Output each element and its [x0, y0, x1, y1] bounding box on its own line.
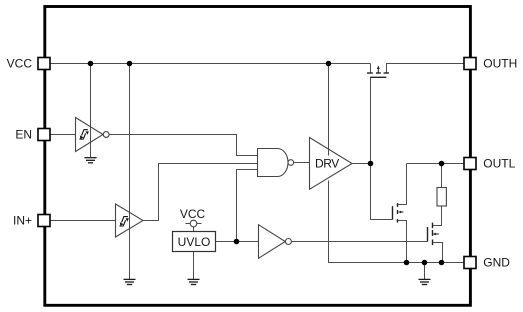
svg-text:UVLO: UVLO — [178, 235, 211, 249]
svg-text:IN+: IN+ — [13, 214, 32, 228]
svg-text:EN: EN — [15, 128, 32, 142]
svg-text:GND: GND — [483, 256, 510, 270]
svg-text:OUTL: OUTL — [483, 157, 515, 171]
svg-text:VCC: VCC — [180, 207, 206, 221]
svg-text:OUTH: OUTH — [483, 57, 517, 71]
svg-text:VCC: VCC — [7, 56, 33, 70]
svg-text:DRV: DRV — [315, 157, 339, 171]
